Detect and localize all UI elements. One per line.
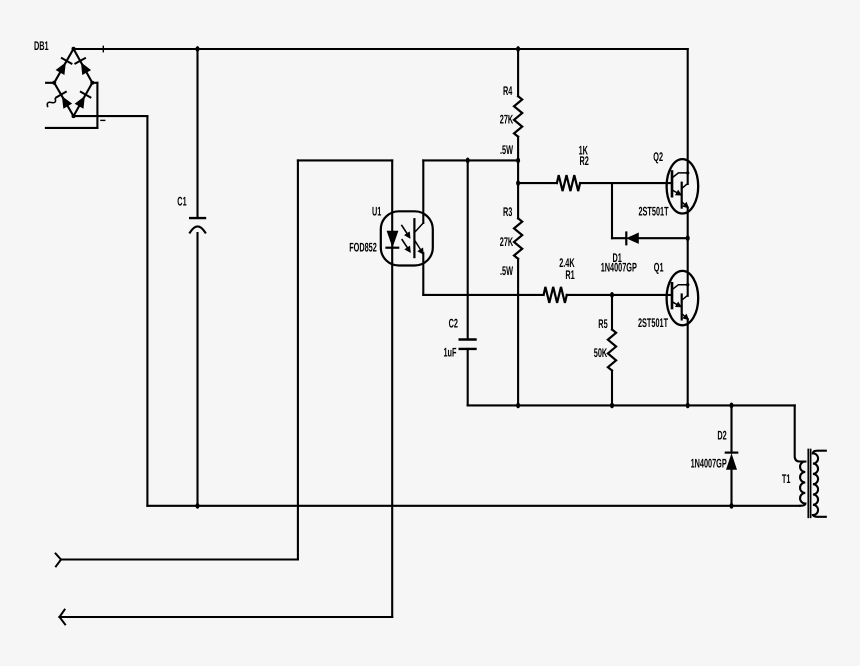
svg-text:2ST501T: 2ST501T <box>639 204 669 218</box>
svg-text:R4: R4 <box>503 84 512 98</box>
svg-text:R5: R5 <box>598 317 607 331</box>
svg-text:FOD852: FOD852 <box>349 240 377 254</box>
svg-text:1N4007GP: 1N4007GP <box>691 457 727 471</box>
svg-text:50K: 50K <box>594 346 607 360</box>
svg-text:2ST501T: 2ST501T <box>638 316 668 330</box>
svg-text:DB1: DB1 <box>34 39 49 53</box>
svg-text:Q1: Q1 <box>654 261 664 275</box>
svg-text:.5W: .5W <box>500 264 513 278</box>
svg-text:1uF: 1uF <box>444 345 457 359</box>
svg-text:27K: 27K <box>500 112 513 126</box>
svg-text:.5W: .5W <box>500 143 513 157</box>
svg-text:Q2: Q2 <box>653 150 663 164</box>
svg-text:R2: R2 <box>580 154 589 168</box>
svg-text:C2: C2 <box>449 316 458 330</box>
svg-text:T1: T1 <box>782 472 791 486</box>
svg-text:R3: R3 <box>503 205 512 219</box>
svg-text:C1: C1 <box>177 194 186 208</box>
svg-text:1N4007GP: 1N4007GP <box>601 260 637 274</box>
svg-text:U1: U1 <box>372 204 381 218</box>
svg-text:27K: 27K <box>500 235 513 249</box>
svg-text:R1: R1 <box>565 268 574 282</box>
svg-text:D2: D2 <box>717 428 726 442</box>
